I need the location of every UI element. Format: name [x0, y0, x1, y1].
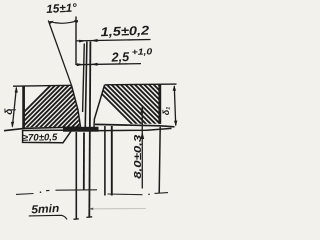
centerline dash 1 — [16, 193, 34, 196]
left plate hatching — [4, 82, 126, 132]
paper background — [0, 0, 182, 229]
backing strip outline — [23, 130, 72, 143]
foot tick left — [74, 218, 79, 221]
angle arc arrowhead right — [74, 20, 79, 23]
faint reference line — [92, 208, 146, 210]
centerline dash 5 — [155, 192, 169, 195]
root gap left extension line — [85, 42, 87, 131]
arrowhead 2,5 right — [90, 63, 97, 66]
left thickness dimension line δ — [12, 88, 16, 127]
angle leg (groove face extension) — [48, 21, 71, 86]
lower structure inner wall right — [111, 126, 113, 196]
left plate bottom edge with extension — [4, 127, 81, 131]
arrowhead 1,5 right — [90, 39, 98, 42]
foot tick right — [86, 216, 92, 219]
svg-text:1,5±0,2: 1,5±0,2 — [100, 24, 149, 40]
δ1 arrow bottom — [174, 121, 177, 127]
svg-text:5min: 5min — [31, 203, 60, 216]
extension line of 2,5 dimension — [83, 44, 85, 113]
left plate left section edge — [22, 86, 25, 129]
dimension line 2,5+1,0 — [76, 64, 141, 65]
δ arrow top — [15, 86, 18, 92]
svg-text:δ: δ — [4, 108, 15, 115]
right plate top edge with extension — [105, 83, 177, 86]
right thickness dimension line δ1 — [174, 86, 175, 125]
lower structure second line — [83, 133, 85, 191]
arrowhead 2,5 left — [77, 63, 84, 66]
root junction dark band — [63, 127, 99, 132]
5min underline leader — [29, 215, 67, 219]
8,0 arrowhead at ledge — [140, 131, 144, 139]
svg-text:δ₁: δ₁ — [161, 107, 171, 116]
svg-text:+1,0: +1,0 — [132, 46, 153, 57]
δ label tick — [11, 109, 16, 111]
right plate right section edge — [158, 84, 161, 124]
lower structure left edge — [75, 132, 77, 219]
root gap right extension line — [89, 42, 90, 217]
right plate hatching — [88, 80, 209, 130]
centerline dot 1 — [40, 191, 42, 193]
centerline dot 2 — [148, 194, 150, 196]
arrowhead 1,5 left — [79, 40, 87, 43]
angle dimension arc — [50, 21, 79, 24]
left plate top edge with extension — [13, 84, 72, 87]
left plate groove face — [72, 85, 81, 127]
small left arrow on faint line — [89, 208, 94, 210]
8,0 upper arrowhead — [140, 106, 144, 113]
backing strip right ledge — [89, 128, 171, 130]
svg-text:≥70±0,5: ≥70±0,5 — [23, 132, 58, 144]
δ arrow bottom — [11, 122, 14, 128]
vertical dimension line 8,0±0,3 — [141, 107, 143, 189]
centerline dash 3 — [56, 189, 98, 191]
svg-text:2,5: 2,5 — [110, 49, 130, 65]
dimension line 1,5±0,2 — [76, 40, 151, 41]
svg-text:15±1°: 15±1° — [46, 0, 77, 16]
δ1 arrow top — [173, 85, 176, 91]
centerline dash 4 — [108, 193, 143, 196]
right plate bottom edge with extension — [95, 124, 175, 126]
right plate groove face — [94, 85, 105, 132]
angle leg vertical (root edge extension) — [75, 17, 77, 66]
right end tick — [159, 127, 160, 193]
angle arc arrowhead left — [49, 21, 54, 24]
centerline dash 2 — [46, 189, 50, 191]
svg-text:8,0±0,3: 8,0±0,3 — [133, 135, 144, 179]
lower structure inner wall left — [104, 126, 106, 196]
